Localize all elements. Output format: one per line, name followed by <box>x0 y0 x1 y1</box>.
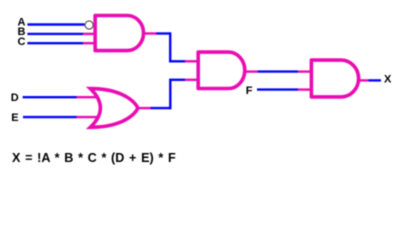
pin U3 input top <box>298 70 313 72</box>
wire B <box>27 33 83 35</box>
wire U4 out vertical <box>169 79 171 110</box>
pin C of gate U1 <box>83 42 96 44</box>
svg-text:C: C <box>18 36 26 48</box>
wire D <box>23 96 77 98</box>
wire into U2 bottom input <box>170 79 185 81</box>
wire U4 out horizontal <box>151 107 171 109</box>
pin U2 input top <box>185 60 200 62</box>
svg-text:F: F <box>246 85 253 97</box>
wire U2 to U3 <box>258 70 298 72</box>
svg-text:X = !A * B * C * (D + E) * F: X = !A * B * C * (D + E) * F <box>12 151 176 165</box>
svg-text:E: E <box>11 112 18 124</box>
wire F <box>257 88 298 90</box>
wire U1 out horizontal <box>156 32 170 34</box>
wire E <box>23 116 77 118</box>
and-gate U3 <box>311 60 358 97</box>
and-gate U2 <box>198 52 245 88</box>
pin U3 output <box>358 79 369 81</box>
wire into U2 top input <box>170 60 185 62</box>
pin U2 input bottom <box>185 79 200 81</box>
and-gate U1 <box>95 16 143 51</box>
pin E of or-gate U4 <box>77 116 97 118</box>
svg-text:D: D <box>11 92 19 104</box>
wire X output <box>369 79 382 81</box>
inverter bubble on input A <box>85 21 93 29</box>
or-gate U4 <box>90 89 138 128</box>
svg-text:X: X <box>384 74 392 86</box>
wire U1 out vertical <box>169 32 171 62</box>
pin U3 input bottom <box>298 88 313 90</box>
pin U1 output <box>143 32 157 34</box>
pin D of or-gate U4 <box>77 96 97 98</box>
wire C <box>27 42 83 44</box>
pin U2 output <box>244 70 258 72</box>
pin B of gate U1 <box>83 33 96 35</box>
wire A <box>27 23 84 25</box>
pin U4 output <box>137 107 151 109</box>
